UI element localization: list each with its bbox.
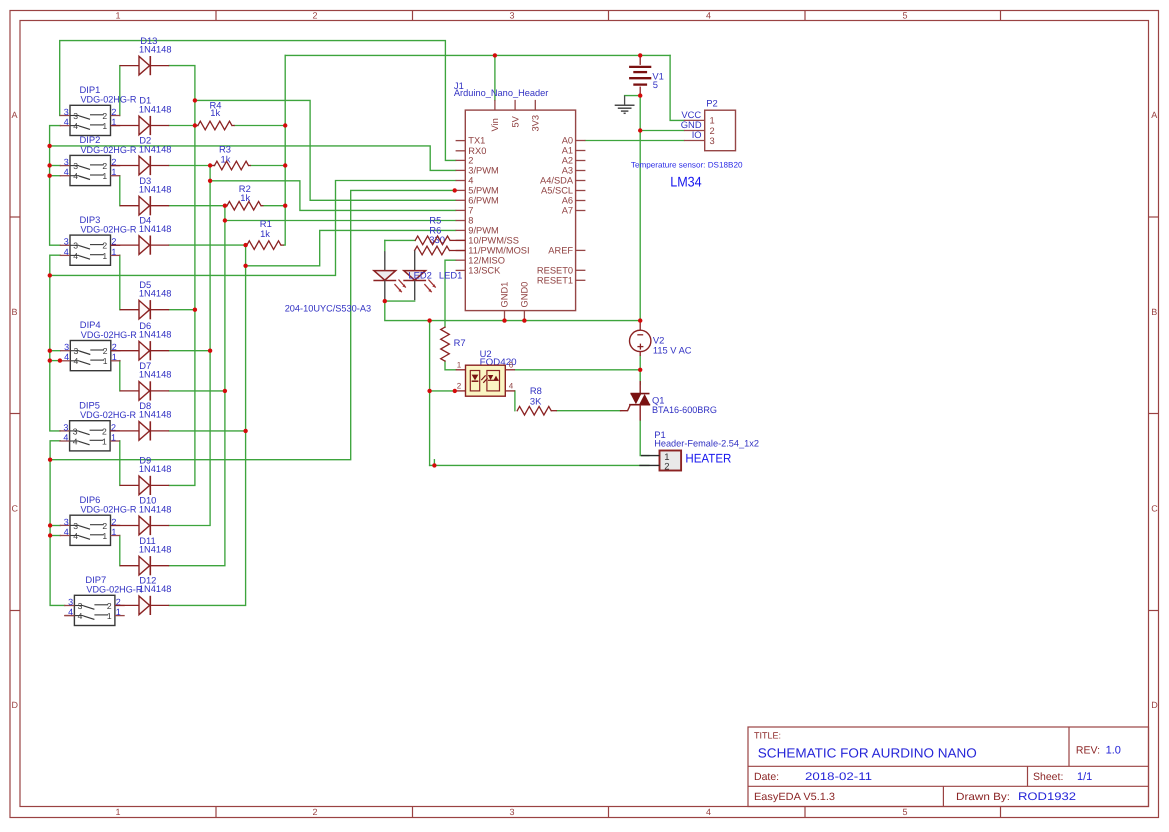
optocoupler U2 internal triac [487, 371, 500, 391]
wire U2 pin4 drop to R8 [514, 391, 516, 411]
junction D5 junction [193, 308, 197, 312]
resistor R3 [210, 161, 248, 170]
svg-text:3: 3 [64, 517, 69, 527]
svg-text:115 V AC: 115 V AC [653, 345, 692, 356]
junction U2 pin6 net [638, 368, 642, 372]
wire VCC vertical rail [284, 55, 286, 245]
junction GND1 [502, 318, 506, 322]
svg-text:3: 3 [509, 807, 514, 817]
junction V1 minus [638, 93, 642, 97]
LED LED1 [403, 251, 435, 301]
wire DIP5 pin4 vertical to DIP7 pin3 [50, 441, 65, 606]
svg-text:4: 4 [63, 432, 68, 442]
svg-text:D: D [1151, 700, 1158, 710]
wire D8 cathode to bus [169, 430, 245, 432]
svg-text:1: 1 [102, 121, 107, 131]
svg-text:2: 2 [111, 107, 116, 117]
junction pin8 branch [223, 218, 227, 222]
junction P2 GND [638, 128, 642, 132]
connector P1 pin numbers [664, 452, 669, 473]
svg-text:HEATER: HEATER [685, 451, 731, 465]
junction pin5 branch [48, 458, 52, 462]
svg-text:B: B [12, 307, 18, 317]
svg-text:Header-Female-2.54_1x2: Header-Female-2.54_1x2 [654, 438, 759, 449]
svg-text:4: 4 [73, 436, 78, 446]
wire branch to U2 pin2 [430, 390, 456, 392]
wire GND to P2 pin2 [640, 130, 684, 132]
wire net to J1 pin 3/PWM [50, 146, 456, 171]
title block border [748, 727, 1149, 807]
wire U2 pin6 to triac net [515, 369, 640, 371]
svg-text:A2: A2 [562, 156, 573, 166]
svg-text:IO: IO [692, 129, 702, 140]
ground symbol [615, 96, 635, 114]
LED LED2 [373, 251, 405, 301]
wire D13 anode to DIP1 pin2 [119, 66, 121, 116]
diode D9 [120, 476, 169, 495]
svg-text:2: 2 [102, 521, 107, 531]
svg-text:5: 5 [902, 11, 907, 21]
battery V1 [629, 55, 651, 95]
svg-text:2018-02-11: 2018-02-11 [805, 771, 872, 783]
junction R2 right [283, 204, 287, 208]
wire D1 cathode to R4 [169, 125, 198, 127]
op-amp ... connector J1 body [456, 100, 586, 321]
junction DIP4 pin4 extra [58, 358, 62, 362]
svg-text:2: 2 [468, 156, 473, 166]
wire D7 cathode to bus [169, 390, 225, 392]
svg-text:2: 2 [102, 161, 107, 171]
svg-text:1: 1 [111, 432, 116, 442]
resistor R2 [225, 201, 261, 210]
svg-text:A5/SCL: A5/SCL [541, 186, 573, 196]
svg-text:RESET1: RESET1 [537, 275, 573, 285]
wire D5 cathode to bus [169, 309, 195, 311]
wire J1 pin12 to R7 [445, 260, 456, 327]
svg-text:7: 7 [468, 206, 473, 216]
junction pin6 branch [193, 98, 197, 102]
wire branch DIP4 pin3 [50, 350, 61, 352]
wire net to J1 pin 4 [50, 181, 456, 276]
wire net to J1 pin 8 [225, 220, 456, 222]
svg-text:REV:: REV: [1076, 745, 1100, 757]
svg-text:A4/SDA: A4/SDA [540, 176, 574, 186]
optocoupler U2 body [456, 365, 515, 396]
svg-text:R7: R7 [454, 337, 466, 348]
wire R2 bus down to D11 [169, 206, 225, 566]
svg-text:GND1: GND1 [500, 282, 510, 308]
svg-text:2: 2 [312, 807, 317, 817]
resistor R8 [517, 406, 557, 415]
svg-text:3: 3 [64, 237, 69, 247]
diode D10 [111, 516, 170, 535]
svg-text:D: D [12, 700, 19, 710]
svg-text:1N4148: 1N4148 [139, 143, 172, 154]
svg-text:2: 2 [710, 126, 715, 136]
svg-text:1: 1 [115, 807, 120, 817]
diode D1 [111, 116, 170, 135]
wire DIP1 pin4 vertical to DIP3 pin3 [50, 126, 61, 246]
svg-text:4: 4 [64, 352, 69, 362]
junction R2 left [223, 204, 227, 208]
svg-text:1: 1 [111, 247, 116, 257]
svg-text:1N4148: 1N4148 [139, 583, 172, 594]
svg-text:1: 1 [102, 436, 107, 446]
junction GND rail V2 [638, 318, 642, 322]
junction R4 right [283, 123, 287, 127]
resistor R6 [415, 246, 466, 255]
wire LED2 anode drop [384, 240, 386, 251]
svg-text:1: 1 [102, 171, 107, 181]
resistor R4 [195, 121, 232, 130]
wire GND drop to U2 pin2 and P1 [429, 321, 431, 466]
svg-text:1N4148: 1N4148 [139, 409, 172, 420]
svg-text:3: 3 [73, 521, 78, 531]
diode D7 [120, 381, 169, 400]
svg-text:2: 2 [664, 462, 669, 473]
wire net to J1 pin 7 [210, 181, 456, 211]
wire branch DIP6 pin3 [50, 525, 60, 527]
junction R4 left [193, 123, 197, 127]
junction pin3 branch [47, 144, 51, 148]
svg-text:1: 1 [710, 116, 715, 126]
svg-text:VDG-02HG-R: VDG-02HG-R [81, 504, 137, 515]
svg-text:10/PWM/SS: 10/PWM/SS [468, 236, 519, 246]
wire R2 to VCC rail [263, 205, 285, 207]
svg-text:5/PWM: 5/PWM [468, 186, 498, 196]
svg-text:Arduino_Nano_Header: Arduino_Nano_Header [454, 87, 549, 98]
svg-text:1: 1 [102, 251, 107, 261]
svg-text:A6: A6 [562, 196, 573, 206]
wire DIP5 pin1 jog to D9 [119, 441, 121, 486]
wire Q1 to P1 pin1 [640, 421, 649, 456]
svg-text:A: A [12, 110, 18, 120]
svg-text:C: C [12, 504, 19, 514]
svg-text:RESET0: RESET0 [537, 265, 573, 275]
svg-text:VDG-02HG-R: VDG-02HG-R [81, 144, 137, 155]
junction R1 left [243, 243, 247, 247]
svg-text:3: 3 [73, 111, 78, 121]
svg-text:TX1: TX1 [468, 136, 485, 146]
DIP7 pin4 unconnected stub [65, 615, 75, 617]
svg-text:Sheet:: Sheet: [1033, 771, 1063, 783]
wire A0 to P2 pin3 [585, 140, 684, 142]
DIP switch DIP3 body [60, 235, 121, 265]
svg-text:2: 2 [457, 382, 462, 391]
junction pin4 branch [48, 273, 52, 277]
svg-text:8: 8 [468, 216, 473, 226]
resistor R1 [246, 241, 281, 250]
junction DIP6 pin3 [48, 523, 52, 527]
connector P2 body [684, 110, 736, 151]
wire V1 minus down to GND rail [639, 96, 641, 321]
junction GND rail U2 drop [427, 318, 431, 322]
wire D6 cathode to bus [169, 350, 210, 352]
svg-text:3: 3 [73, 426, 78, 436]
wire branch DIP2 pin4 [50, 175, 61, 177]
svg-text:4: 4 [73, 121, 78, 131]
svg-text:1: 1 [107, 611, 112, 621]
wire branch DIP2 pin3 [50, 165, 61, 167]
svg-text:3V3: 3V3 [531, 115, 541, 132]
svg-text:4: 4 [706, 11, 711, 21]
wire GND rail under J1 [385, 301, 640, 321]
svg-text:4: 4 [78, 611, 83, 621]
svg-text:2: 2 [107, 601, 112, 611]
svg-text:5: 5 [653, 79, 658, 90]
wire DIP2 pin1 jog to D3 [119, 176, 121, 206]
svg-text:1: 1 [111, 527, 116, 537]
svg-text:11/PWM/MOSI: 11/PWM/MOSI [468, 246, 529, 256]
svg-text:4: 4 [509, 382, 514, 391]
resistor R2 right lead [261, 205, 263, 207]
svg-text:2: 2 [312, 11, 317, 21]
svg-text:VCC: VCC [681, 109, 701, 120]
junction V1 plus [638, 53, 642, 57]
resistor R4 right lead [232, 125, 235, 127]
DIP switch DIP1 body [60, 105, 121, 135]
svg-text:3: 3 [73, 161, 78, 171]
diode D3 [120, 196, 169, 215]
svg-text:2: 2 [102, 426, 107, 436]
svg-text:6/PWM: 6/PWM [468, 195, 498, 205]
wire P1 pin2 row [430, 464, 649, 466]
svg-text:3: 3 [63, 422, 68, 432]
optocoupler U2 internal LED [470, 371, 479, 391]
svg-text:4: 4 [74, 356, 79, 366]
wire battery minus to ground [625, 95, 641, 97]
junction Vin [493, 53, 497, 57]
svg-text:A1: A1 [562, 146, 573, 156]
junction D8 junction [243, 429, 247, 433]
wire LED cathodes link [385, 300, 415, 302]
svg-text:4: 4 [64, 167, 69, 177]
svg-text:3: 3 [74, 346, 79, 356]
svg-text:LM34: LM34 [670, 173, 702, 189]
wire branch DIP4 pin4 [50, 360, 61, 362]
wire R5 feed on pin 10 row [385, 239, 415, 241]
wire DIP3 pin4 vertical to DIP5 pin3 [50, 255, 61, 431]
DIP switch DIP7 body [64, 595, 125, 625]
svg-text:GND0: GND0 [520, 282, 530, 308]
wire R7 to U2 pin1 [445, 361, 456, 370]
wire R8 to Q1 gate [557, 410, 621, 412]
svg-text:1: 1 [103, 356, 108, 366]
diode D8 [110, 421, 169, 440]
wire R1 bus down to D12 [169, 245, 245, 605]
wire VCC to P2 pin1 [670, 55, 684, 120]
svg-text:4: 4 [73, 171, 78, 181]
svg-text:4: 4 [64, 527, 69, 537]
svg-text:3: 3 [64, 107, 69, 117]
junction LED cathode [383, 299, 387, 303]
svg-text:1N4148: 1N4148 [139, 184, 172, 195]
svg-text:1N4148: 1N4148 [139, 329, 172, 340]
junction J1 pin5 pad [453, 188, 457, 192]
wire net to J1 pin 6/PWM [195, 100, 456, 200]
connector P2 pin numbers [710, 116, 715, 146]
DIP switch DIP2 body [60, 155, 121, 185]
junction R3 left [208, 163, 212, 167]
DIP switch DIP5 body [59, 421, 120, 451]
svg-text:1N4148: 1N4148 [139, 43, 172, 54]
diode D5 [120, 300, 169, 319]
svg-text:A: A [1151, 110, 1157, 120]
wire D4 cathode to R1 [169, 244, 247, 246]
svg-text:4: 4 [73, 251, 78, 261]
AC source V2 [630, 321, 651, 356]
svg-text:LED1: LED1 [439, 270, 462, 281]
triac Q1 [621, 381, 651, 421]
diode D11 [120, 556, 169, 575]
optocoupler U2 arrows [481, 375, 487, 382]
svg-text:3: 3 [710, 136, 715, 146]
svg-text:A7: A7 [562, 206, 573, 216]
svg-text:12/MISO: 12/MISO [468, 255, 505, 265]
svg-text:1N4148: 1N4148 [139, 369, 172, 380]
svg-text:6: 6 [509, 361, 514, 370]
resistor R7 [441, 327, 450, 361]
resistor R5 [415, 236, 465, 245]
svg-text:VDG-02HG-R: VDG-02HG-R [81, 94, 137, 105]
wire D13 cathode bus down to D9 [169, 66, 195, 486]
svg-text:C: C [1151, 504, 1158, 514]
optocoupler U2 pin numbers [457, 361, 514, 391]
junction U2 pin2 drop [427, 389, 431, 393]
diode D12 [115, 596, 169, 615]
svg-text:EasyEDA V5.1.3: EasyEDA V5.1.3 [754, 791, 835, 803]
svg-text:4: 4 [64, 247, 69, 257]
junction DIP6 pin4 [48, 533, 52, 537]
junction pin9 branch [243, 264, 247, 268]
svg-text:ROD1932: ROD1932 [1018, 791, 1076, 803]
svg-text:1: 1 [457, 361, 462, 370]
junction DIP4 pin3 [48, 349, 52, 353]
svg-text:LED2: LED2 [408, 270, 431, 281]
junction DIP4 pin4 [48, 358, 52, 362]
svg-text:9/PWM: 9/PWM [468, 226, 498, 236]
svg-text:BTA16-600BRG: BTA16-600BRG [652, 404, 717, 415]
svg-text:1: 1 [115, 11, 120, 21]
resistor R3 right lead [249, 165, 251, 167]
svg-text:4: 4 [468, 176, 473, 186]
junction GND0 [522, 318, 526, 322]
wire Vin drop [494, 55, 496, 100]
wire branch DIP6 pin4 [50, 535, 60, 537]
svg-text:1N4148: 1N4148 [139, 223, 172, 234]
resistor R1 right lead [281, 244, 284, 246]
svg-text:5V: 5V [510, 115, 520, 127]
wire VCC top rail [285, 54, 670, 56]
svg-text:AREF: AREF [548, 246, 573, 256]
wire DIP1 pin3 to J1 pin 2 [60, 41, 456, 161]
diode D4 [111, 236, 170, 255]
svg-text:3: 3 [73, 241, 78, 251]
svg-text:VDG-02HG-R: VDG-02HG-R [86, 584, 142, 595]
wire net to J1 pin 9/PWM [246, 230, 456, 265]
svg-text:SCHEMATIC FOR AURDINO NANO: SCHEMATIC FOR AURDINO NANO [758, 746, 977, 761]
svg-text:Drawn By:: Drawn By: [956, 791, 1010, 803]
svg-text:B: B [1151, 307, 1157, 317]
diode D2 [111, 156, 170, 175]
junction pin7 branch [208, 179, 212, 183]
svg-text:4: 4 [73, 531, 78, 541]
svg-text:3: 3 [68, 597, 73, 607]
svg-text:1N4148: 1N4148 [139, 103, 172, 114]
svg-text:3: 3 [509, 11, 514, 21]
svg-text:1: 1 [111, 167, 116, 177]
wire D2 cathode to R3 [169, 165, 214, 167]
svg-text:Date:: Date: [754, 771, 779, 783]
DIP switch DIP6 body [60, 515, 121, 545]
wire R4 to VCC rail [235, 125, 286, 127]
wire R3 to VCC rail [251, 165, 285, 167]
DIP switch DIP4 body [60, 341, 121, 371]
svg-text:3: 3 [64, 342, 69, 352]
svg-text:A3: A3 [562, 166, 573, 176]
junction P1 pin2 joint [432, 463, 436, 467]
wire V2 to Q1 [639, 356, 641, 384]
wire D3 cathode to R2 [169, 205, 227, 207]
svg-text:Vin: Vin [490, 118, 500, 131]
junction D6 junction [208, 349, 212, 353]
junction DIP2 pin3 [47, 163, 51, 167]
svg-text:1k: 1k [210, 107, 220, 118]
svg-text:1k: 1k [260, 228, 270, 239]
svg-text:1N4148: 1N4148 [139, 463, 172, 474]
svg-text:1N4148: 1N4148 [139, 544, 172, 555]
svg-text:A0: A0 [562, 136, 573, 146]
wire DIP6 pin1 jog to D11 [119, 536, 121, 566]
diode D6 [111, 341, 169, 360]
svg-text:3K: 3K [530, 395, 542, 406]
junction R3 right [283, 163, 287, 167]
svg-text:Temperature sensor: DS18B20: Temperature sensor: DS18B20 [631, 161, 743, 170]
svg-text:VDG-02HG-R: VDG-02HG-R [81, 224, 137, 235]
junction D7 junction [223, 389, 227, 393]
svg-text:1N4148: 1N4148 [139, 503, 172, 514]
wire DIP4 pin1 jog to D7 [119, 361, 121, 391]
svg-text:P2: P2 [706, 98, 717, 109]
svg-text:2: 2 [102, 241, 107, 251]
svg-text:1: 1 [112, 352, 117, 362]
svg-text:13/SCK: 13/SCK [468, 266, 501, 276]
connector J1 pin names [468, 115, 574, 308]
svg-text:1: 1 [102, 531, 107, 541]
svg-text:VDG-02HG-R: VDG-02HG-R [80, 409, 136, 420]
svg-text:1.0: 1.0 [1106, 745, 1121, 757]
connector P1 body [639, 451, 681, 471]
svg-text:1: 1 [116, 607, 121, 617]
svg-text:5: 5 [902, 807, 907, 817]
svg-text:TITLE:: TITLE: [754, 731, 781, 741]
wire DIP3 pin1 jog to D5 [119, 255, 121, 310]
svg-text:4: 4 [706, 807, 711, 817]
svg-text:204-10UYC/S530-A3: 204-10UYC/S530-A3 [285, 303, 371, 314]
svg-text:3: 3 [64, 157, 69, 167]
svg-text:1N4148: 1N4148 [139, 288, 172, 299]
junction DIP2 pin4 [47, 174, 51, 178]
svg-text:1/1: 1/1 [1077, 771, 1092, 783]
svg-text:VDG-02HG-R: VDG-02HG-R [81, 329, 137, 340]
wire net to J1 pin 5/PWM [50, 190, 456, 459]
wire R3 bus down to D10 [169, 166, 210, 526]
svg-text:2: 2 [102, 111, 107, 121]
svg-text:2: 2 [103, 346, 108, 356]
junction U2 pin2 pad [453, 389, 457, 393]
svg-text:3: 3 [78, 601, 83, 611]
svg-text:RX0: RX0 [468, 146, 486, 156]
